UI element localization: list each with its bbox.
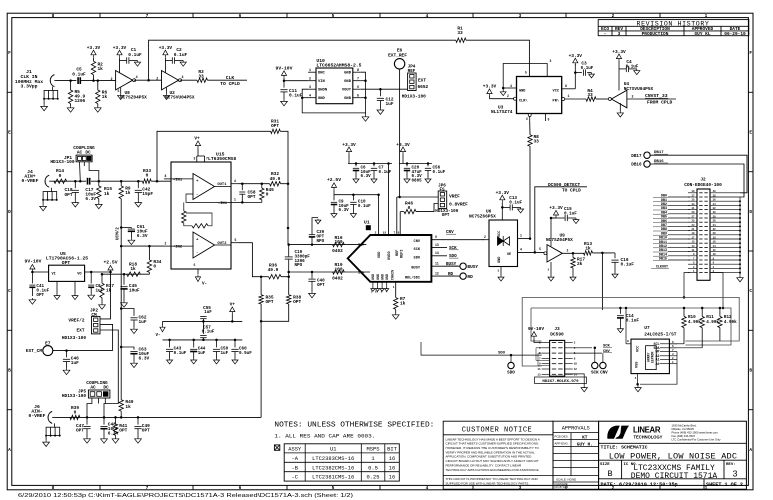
svg-text:8: 8	[565, 84, 567, 88]
wire VOUT	[361, 88, 408, 90]
svg-text:4.99k: 4.99k	[724, 320, 737, 325]
resistor R40	[120, 399, 122, 401]
svg-text:0.25: 0.25	[367, 475, 380, 481]
svg-text:SCK: SCK	[603, 345, 611, 349]
capacitor C44	[193, 340, 195, 348]
svg-text:1: 1	[309, 69, 311, 73]
svg-text:DC590: DC590	[550, 331, 564, 337]
svg-text:39: 39	[692, 190, 695, 193]
capacitor C42	[137, 181, 139, 188]
svg-text:26: 26	[713, 220, 716, 223]
resistor R9	[120, 181, 122, 186]
svg-text:40: 40	[713, 190, 716, 193]
U15 opamp A	[193, 174, 215, 200]
ground J4	[42, 200, 44, 205]
svg-text:0.1uF: 0.1uF	[289, 92, 303, 98]
U7 pins	[660, 343, 669, 345]
svg-text:1uF: 1uF	[139, 319, 147, 325]
frame column ticks top	[99, 13, 101, 17]
svg-text:OPT: OPT	[142, 428, 150, 434]
wire AIN+ main	[52, 180, 86, 182]
svg-text:V-: V-	[202, 282, 207, 287]
J1 shield pads	[52, 87, 54, 91]
svg-text:5: 5	[525, 71, 527, 75]
svg-text:VREF/2: VREF/2	[68, 318, 84, 324]
svg-text:NPO: NPO	[295, 263, 303, 268]
wire OVDD	[388, 164, 390, 236]
wire top rail to U3 clock pin	[466, 40, 529, 76]
svg-text:6.3V: 6.3V	[139, 356, 150, 362]
svg-text:SHEET 1 OF 2: SHEET 1 OF 2	[706, 482, 743, 488]
svg-text:1: 1	[393, 286, 395, 289]
wire CNV J3	[573, 352, 602, 354]
svg-text:11: 11	[537, 368, 541, 371]
J4 shield pads	[51, 188, 53, 192]
resistor R16	[333, 242, 345, 246]
ground C1	[134, 61, 140, 67]
svg-text:1. ALL RES AND CAP ARE 0603.: 1. ALL RES AND CAP ARE 0603.	[274, 433, 375, 440]
svg-text:1uF: 1uF	[71, 360, 79, 366]
U1 right pins	[431, 239, 484, 241]
svg-text:MSPS: MSPS	[367, 447, 380, 453]
resistor R5	[70, 81, 72, 90]
svg-text:9: 9	[435, 235, 437, 239]
ground R41	[112, 437, 119, 443]
ground C20	[404, 177, 410, 183]
inverter U4 (left pointing)	[608, 98, 611, 101]
svg-text:3: 3	[618, 31, 621, 37]
svg-text:0.5: 0.5	[368, 465, 378, 471]
ground C63	[131, 361, 138, 367]
IC U3 NL17SZ74	[517, 77, 562, 114]
svg-text:SHDN: SHDN	[318, 89, 328, 93]
svg-text:18: 18	[713, 236, 716, 239]
svg-text:3: 3	[519, 485, 522, 491]
ground C16	[612, 273, 618, 279]
wire R36 node	[261, 276, 269, 278]
IC U6 NC7SZ66	[489, 220, 518, 267]
svg-text:1k: 1k	[400, 300, 406, 306]
frame row ticks left	[7, 91, 12, 93]
svg-text:12: 12	[713, 249, 716, 252]
capacitor C39	[311, 237, 313, 244]
ground R6	[94, 106, 101, 112]
wire U9 out	[562, 252, 583, 254]
svg-text:BUSY: BUSY	[467, 264, 478, 270]
svg-text:29: 29	[692, 211, 695, 214]
svg-text:06-29-10: 06-29-10	[724, 31, 746, 37]
capacitor C5	[77, 77, 79, 84]
IC U5 LT1790	[49, 265, 85, 281]
capacitor C11	[283, 81, 285, 88]
test point SCK	[592, 362, 598, 368]
svg-text:UCM/2: UCM/2	[116, 227, 121, 240]
label HD2X7-MOLEX-079	[535, 377, 587, 383]
assembly table	[284, 444, 399, 481]
svg-text:17: 17	[692, 236, 695, 239]
svg-text:GND: GND	[498, 257, 502, 263]
svg-text:EXT_REF: EXT_REF	[388, 52, 407, 58]
wire U5 out +2.5V	[93, 271, 111, 273]
svg-text:24: 24	[713, 224, 716, 227]
U15 V- pin	[197, 269, 199, 274]
capacitor C48	[103, 417, 105, 424]
U6 switch symbol	[498, 237, 504, 245]
svg-text:OPT: OPT	[76, 428, 84, 434]
resistor R32	[270, 182, 281, 186]
J3 wires left loop	[536, 348, 550, 361]
capacitor C12	[379, 89, 381, 96]
svg-text:+2.5V: +2.5V	[103, 260, 117, 266]
svg-text:EXT: EXT	[418, 77, 426, 83]
svg-text:0.1uF: 0.1uF	[358, 204, 371, 209]
svg-text:CM: CM	[91, 312, 97, 318]
svg-text:0.1uF: 0.1uF	[174, 351, 187, 356]
svg-text:1: 1	[234, 198, 236, 202]
svg-text:10: 10	[574, 363, 578, 366]
wire R18 rail	[102, 273, 149, 275]
resistor R14	[54, 179, 67, 183]
ground C56	[425, 177, 431, 183]
svg-text:1: 1	[371, 456, 374, 462]
svg-text:10uF: 10uF	[129, 288, 140, 294]
svg-text:0.1uF: 0.1uF	[72, 71, 86, 77]
svg-text:OPT: OPT	[248, 194, 256, 200]
svg-text:2: 2	[484, 235, 486, 239]
svg-text:13: 13	[435, 243, 439, 247]
ground R15	[95, 203, 102, 209]
wire +2.5V to JP2	[100, 272, 110, 319]
svg-text:0.1uF: 0.1uF	[626, 318, 640, 324]
svg-text:37: 37	[692, 194, 695, 197]
svg-text:3: 3	[548, 269, 550, 272]
resistor R1	[456, 38, 466, 42]
svg-text:6.3V: 6.3V	[137, 233, 148, 239]
svg-text:GND: GND	[344, 72, 352, 76]
wire J2 pin1 riser	[684, 273, 690, 298]
svg-text:7: 7	[206, 157, 208, 161]
svg-text:B: B	[749, 368, 752, 374]
U15 pin +IN2	[164, 245, 171, 247]
U7 A pins tie	[676, 352, 678, 364]
U2 gnd pin	[166, 88, 168, 94]
capacitor C7	[373, 164, 375, 167]
svg-text:0.1uF: 0.1uF	[626, 65, 639, 70]
capacitor C43	[169, 340, 171, 348]
svg-text:TECHNOLOGY APPLICATIONS ENGINE: TECHNOLOGY APPLICATIONS ENGINEERING FOR …	[446, 468, 540, 472]
U3 bottom pins	[528, 114, 531, 117]
svg-text:2: 2	[156, 78, 158, 82]
Linear Technology logo	[607, 426, 629, 439]
svg-text:D: D	[749, 209, 752, 215]
ground C50	[213, 358, 219, 364]
svg-text:NOTES: UNLESS OTHERWISE SPECIF: NOTES: UNLESS OTHERWISE SPECIFIED:	[274, 422, 434, 430]
approvals box	[553, 421, 599, 489]
svg-text:6.3V: 6.3V	[108, 431, 119, 437]
capacitor C50	[216, 340, 218, 348]
svg-text:0.1uF: 0.1uF	[433, 170, 446, 175]
frame column ticks bottom	[99, 485, 101, 489]
svg-text:49.9: 49.9	[270, 176, 281, 182]
svg-text:36: 36	[713, 199, 716, 202]
svg-text:HD1X3-100: HD1X3-100	[50, 159, 74, 165]
U3 VCC pin and C3	[562, 88, 576, 90]
svg-text:14: 14	[713, 245, 716, 248]
svg-text:HD2X7-MOLEX-079: HD2X7-MOLEX-079	[542, 380, 579, 384]
svg-text:23: 23	[692, 224, 695, 227]
svg-text:RD: RD	[448, 272, 454, 277]
svg-text:PRODUCTION: PRODUCTION	[642, 31, 669, 37]
svg-text:SCK: SCK	[591, 370, 599, 375]
svg-text:4: 4	[234, 179, 236, 183]
svg-text:LINEAR: LINEAR	[633, 426, 661, 435]
ground C47	[84, 437, 91, 443]
svg-text:DC1571A-3: DC1571A-3	[555, 485, 569, 489]
svg-text:4: 4	[182, 76, 184, 80]
svg-text:16: 16	[389, 475, 395, 481]
IC U7 24LC025	[631, 339, 669, 374]
IC U10 LTC6652	[316, 68, 353, 104]
svg-text:OPT: OPT	[64, 192, 72, 198]
ground U3 pin4	[502, 88, 504, 90]
svg-text:4: 4	[635, 377, 637, 380]
svg-text:HD1X3-100: HD1X3-100	[62, 335, 86, 341]
svg-text:B: B	[607, 469, 612, 479]
capacitor C8	[90, 272, 92, 283]
wire U8 to U2	[134, 79, 162, 81]
frame row ticks right	[748, 91, 753, 93]
svg-text:HD1X3-100: HD1X3-100	[62, 393, 86, 399]
capacitor C3	[575, 72, 582, 74]
resistor R3	[197, 78, 207, 82]
svg-text:30: 30	[713, 211, 716, 214]
svg-text:A0: A0	[655, 363, 659, 367]
svg-text:OPT: OPT	[271, 123, 279, 129]
wire AIN- riser	[260, 321, 262, 417]
resistor R4	[586, 97, 596, 101]
svg-text:E: E	[8, 130, 11, 136]
U1 ground pins	[372, 282, 374, 288]
svg-text:TITLE: SCHEMATIC: TITLE: SCHEMATIC	[601, 444, 648, 450]
svg-text:RD: RD	[467, 274, 473, 280]
svg-text:LTC2381CMS-16: LTC2381CMS-16	[312, 475, 354, 481]
svg-text:EXT: EXT	[76, 328, 84, 334]
svg-text:BUSY: BUSY	[446, 262, 457, 267]
svg-text:FS: FS	[439, 187, 445, 192]
wire IN+ vertical rail	[287, 184, 289, 244]
resistor R13	[584, 251, 593, 255]
resistor R34	[148, 246, 150, 260]
capacitor C15	[551, 217, 565, 219]
svg-text:6: 6	[526, 117, 528, 121]
svg-text:15pF: 15pF	[142, 191, 153, 197]
capacitor C17 series	[87, 178, 89, 185]
resistor R35	[260, 277, 262, 295]
svg-text:3: 3	[194, 157, 196, 161]
svg-text:4: 4	[426, 485, 429, 491]
svg-text:KT: KT	[582, 434, 588, 440]
svg-text:1k: 1k	[102, 94, 108, 100]
capacitor C47	[86, 417, 88, 424]
assembly option marker	[274, 445, 279, 450]
U7 VSS pin	[637, 374, 639, 385]
ground C18	[72, 201, 79, 207]
svg-text:20: 20	[713, 232, 716, 235]
svg-text:SUPPLIED FOR USE WITH LINEAR T: SUPPLIED FOR USE WITH LINEAR TECHNOLOGY …	[446, 481, 530, 485]
svg-text:LT6350CMS8: LT6350CMS8	[208, 156, 236, 162]
capacitor C4	[625, 66, 627, 72]
svg-text:49.9: 49.9	[268, 267, 279, 273]
resistor R7	[395, 282, 397, 298]
svg-text:0: 0	[146, 173, 149, 179]
wire DC590 detect	[535, 187, 587, 253]
U3 pin3 tie to gnd	[503, 64, 547, 89]
V- arrow	[162, 321, 164, 325]
ADC U1 LTC23xx	[348, 235, 432, 282]
svg-text:4: 4	[520, 247, 522, 251]
capacitor C40	[311, 272, 313, 278]
svg-text:GND: GND	[377, 274, 381, 280]
size / ic no / rev row	[599, 459, 747, 461]
svg-text:IN-: IN-	[358, 272, 365, 276]
svg-text:2: 2	[375, 231, 377, 234]
svg-text:0: 0	[74, 409, 77, 415]
svg-text:DB17: DB17	[631, 154, 642, 159]
svg-text:OPT: OPT	[119, 428, 127, 434]
svg-text:25: 25	[692, 220, 695, 223]
svg-text:12: 12	[435, 271, 439, 275]
resistor R31	[157, 131, 271, 181]
svg-text:DB17: DB17	[654, 151, 664, 155]
svg-text:5: 5	[539, 247, 541, 251]
svg-text:J2: J2	[700, 176, 706, 182]
U10 gnd bus	[302, 72, 365, 113]
svg-text:6652: 6652	[418, 84, 429, 90]
svg-text:F: F	[749, 50, 752, 56]
svg-text:FROM CPLD: FROM CPLD	[647, 100, 673, 106]
svg-text:NC7SZ66P5X: NC7SZ66P5X	[469, 214, 496, 220]
svg-text:ASSY: ASSY	[288, 447, 302, 453]
ground C14	[617, 327, 623, 333]
svg-text:15: 15	[383, 231, 387, 234]
wire OUT2 to R36	[239, 243, 262, 277]
svg-text:100: 100	[334, 239, 342, 245]
U4 gnd pin	[619, 103, 621, 111]
capacitor C45	[123, 274, 125, 285]
svg-text:2: 2	[567, 249, 569, 253]
svg-text:GND: GND	[318, 97, 326, 101]
wire SCL loop inner	[531, 308, 731, 345]
svg-text:CLKOUT: CLKOUT	[656, 266, 668, 270]
svg-text:D: D	[8, 209, 11, 215]
svg-text:2: 2	[612, 13, 615, 19]
svg-text:3: 3	[519, 13, 522, 19]
capacitor C49	[137, 417, 139, 424]
capacitor C6	[355, 164, 357, 167]
svg-text:6/29/2010 12:50:53p C:\KimT-E: 6/29/2010 12:50:53p C:\KimT-EAGLE\PROJEC…	[18, 493, 353, 499]
svg-text:16: 16	[713, 241, 716, 244]
svg-text:33: 33	[457, 30, 463, 36]
svg-text:9V-10V: 9V-10V	[25, 259, 42, 265]
capacitor C62	[121, 309, 134, 316]
U6 pins	[483, 239, 489, 241]
ground U7	[637, 384, 639, 386]
svg-text:0: 0	[59, 173, 62, 179]
svg-text:GND: GND	[372, 274, 376, 280]
wire VREF	[397, 196, 438, 198]
svg-text:0.1uF: 0.1uF	[379, 170, 392, 175]
svg-text:1uF: 1uF	[198, 351, 206, 356]
capacitor C58 wire to -IN1	[239, 201, 243, 203]
svg-text:1: 1	[705, 13, 708, 19]
J6 shield pads	[54, 423, 56, 427]
svg-text:OPT: OPT	[62, 260, 71, 266]
svg-text:SDO: SDO	[414, 256, 421, 260]
svg-text:V+: V+	[194, 135, 200, 141]
capacitor C63	[121, 347, 134, 350]
resistor R12	[719, 307, 722, 310]
resistor R36	[269, 275, 281, 279]
svg-text:0805: 0805	[412, 179, 423, 184]
resistor R8	[529, 121, 531, 135]
resistor R18	[127, 272, 141, 276]
ground J1	[41, 105, 48, 111]
wire CNVST from CPLD	[627, 98, 676, 100]
svg-text:7: 7	[357, 78, 359, 82]
svg-text:6.3V: 6.3V	[85, 196, 96, 202]
wire DB17 to J2	[650, 155, 747, 193]
ground C11	[281, 100, 288, 106]
test point CNV	[600, 362, 606, 368]
svg-text:4: 4	[309, 95, 311, 99]
svg-text:CLR\: CLR\	[519, 99, 528, 104]
svg-text:CHAIN: CHAIN	[392, 270, 396, 280]
svg-text:GND: GND	[519, 89, 525, 93]
ground C62	[131, 327, 138, 333]
svg-text:2: 2	[110, 78, 112, 82]
svg-text:OPT: OPT	[442, 213, 450, 218]
svg-text:SIZE: SIZE	[600, 463, 610, 467]
wire DB16 to J2	[650, 164, 744, 197]
svg-text:1k: 1k	[106, 288, 112, 294]
ground C46	[63, 368, 70, 374]
svg-text:NL17SZ74: NL17SZ74	[491, 109, 513, 115]
svg-text:LTC6652AHMS8-2.5: LTC6652AHMS8-2.5	[316, 63, 361, 69]
resistor R39	[70, 415, 80, 419]
ground C12	[377, 108, 384, 114]
svg-text:LTC2382CMS-16: LTC2382CMS-16	[312, 465, 354, 471]
U8 gnd pin	[120, 88, 122, 94]
ground C44	[191, 358, 197, 364]
ground C7	[371, 177, 377, 183]
title block outline	[599, 421, 747, 489]
U15 pin +IN1	[164, 178, 171, 180]
svg-text:CLK: CLK	[226, 75, 235, 81]
capacitor C14	[619, 308, 621, 314]
svg-text:CUSTOMER NOTICE: CUSTOMER NOTICE	[462, 427, 533, 435]
capacitor C41	[31, 272, 33, 283]
svg-text:OVDD: OVDD	[388, 251, 392, 260]
svg-text:7: 7	[393, 231, 395, 234]
svg-text:34: 34	[713, 203, 716, 206]
resistor R17	[572, 253, 574, 257]
svg-text:21: 21	[692, 228, 695, 231]
U2 vcc pin and +3.3V	[164, 58, 166, 73]
svg-text:5: 5	[118, 89, 120, 93]
wire IN+ rail	[289, 244, 367, 246]
svg-text:-C: -C	[291, 475, 297, 481]
capacitor C56	[427, 164, 429, 167]
